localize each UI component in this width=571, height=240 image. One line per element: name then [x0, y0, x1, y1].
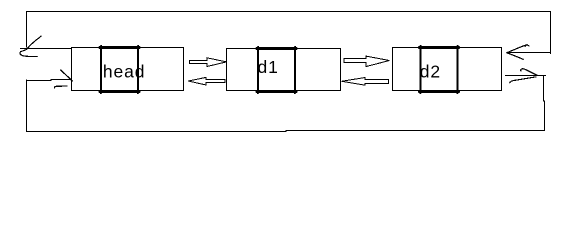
- node head outer box: [72, 48, 184, 91]
- wire left horizontal into head top-left: [21, 48, 71, 50]
- node d1 outer box: [227, 49, 341, 91]
- node d1 data cell (thick): [257, 49, 296, 92]
- arrow d1.next to d2 (block arrow right): [344, 56, 389, 67]
- wire bottom loop (d2.next to head): [27, 75, 545, 131]
- hand arrowhead into head (lower hook stroke): [54, 86, 67, 88]
- wire horizontal into d2 right (from top loop): [507, 52, 551, 54]
- node head data cell (thick): [100, 48, 139, 92]
- arrow d2.prev to d1 (block arrow left): [342, 78, 389, 86]
- hand arrowhead out of d2 (lower stroke): [510, 77, 536, 83]
- hand arrowhead into d2 (upper stroke with flick): [507, 45, 529, 53]
- svg-text:head: head: [103, 61, 146, 81]
- hand arrowhead into d2 (lower stroke): [507, 53, 523, 60]
- arrow head.next to d1 (block arrow right): [190, 58, 227, 67]
- wire horizontal into head bottom-left: [27, 80, 71, 81]
- svg-text:d1: d1: [258, 57, 279, 77]
- node d2 outer box: [393, 48, 502, 91]
- node d2 data cell (thick): [420, 48, 459, 92]
- arrow d1.prev to head (block arrow left): [188, 77, 225, 85]
- wire horizontal out of d2 bottom-right: [506, 75, 546, 77]
- svg-text:d2: d2: [420, 61, 441, 81]
- wire top loop (head.prev to d2): [27, 12, 551, 54]
- hand arrowhead out of d2 (upper curl stroke): [521, 69, 538, 76]
- hand arrowhead at head prev (top-left squiggle): [20, 36, 41, 56]
- hand arrowhead into head (diagonal stroke): [61, 70, 73, 81]
